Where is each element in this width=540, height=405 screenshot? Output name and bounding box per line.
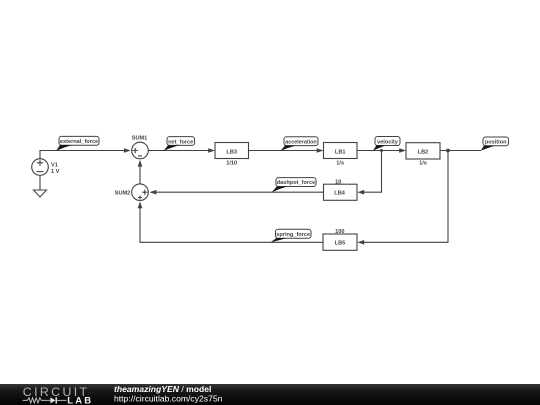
svg-text:LAB: LAB <box>67 396 93 405</box>
svg-text:position: position <box>485 140 507 146</box>
svg-text:acceleration: acceleration <box>285 140 316 146</box>
svg-text:100: 100 <box>335 229 344 235</box>
svg-text:V1: V1 <box>51 163 58 169</box>
svg-text:1/s: 1/s <box>336 160 344 166</box>
svg-text:LB1: LB1 <box>335 149 346 155</box>
svg-text:LB5: LB5 <box>335 241 346 247</box>
svg-text:theamazingYEN / model: theamazingYEN / model <box>114 384 211 394</box>
svg-text:1/10: 1/10 <box>226 160 237 166</box>
svg-text:LB2: LB2 <box>418 149 429 155</box>
svg-text:SUM1: SUM1 <box>132 136 148 142</box>
svg-text:http://circuitlab.com/cy2s75n: http://circuitlab.com/cy2s75n <box>114 393 223 403</box>
svg-text:1 V: 1 V <box>51 169 60 175</box>
svg-text:dashpot_force: dashpot_force <box>277 180 316 186</box>
svg-text:LB4: LB4 <box>334 191 345 197</box>
svg-text:1/s: 1/s <box>419 161 427 167</box>
svg-text:SUM2: SUM2 <box>115 191 131 197</box>
svg-text:LB3: LB3 <box>226 149 237 155</box>
svg-text:spring_force: spring_force <box>276 232 310 238</box>
svg-text:external_force: external_force <box>60 139 98 145</box>
svg-text:velocity: velocity <box>377 139 399 145</box>
svg-text:net_force: net_force <box>168 139 193 145</box>
svg-text:10: 10 <box>335 179 341 185</box>
